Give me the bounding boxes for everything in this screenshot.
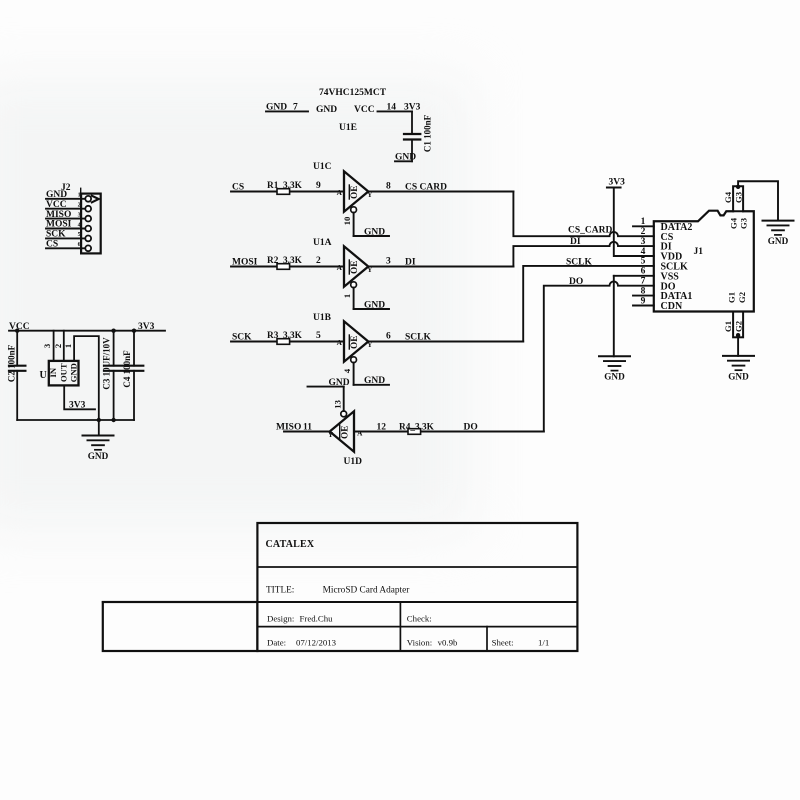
svg-text:OE: OE (349, 261, 359, 274)
svg-text:U1B: U1B (313, 313, 332, 323)
svg-text:CS_CARD: CS_CARD (568, 226, 612, 236)
svg-text:74VHC125MCT: 74VHC125MCT (319, 88, 387, 98)
svg-text:GND: GND (768, 236, 789, 246)
svg-text:VCC: VCC (46, 200, 67, 210)
svg-text:C3 10UF/10V: C3 10UF/10V (102, 337, 112, 390)
svg-text:3V3: 3V3 (609, 177, 626, 187)
svg-text:CS CARD: CS CARD (405, 183, 447, 193)
svg-text:U1A: U1A (313, 238, 332, 248)
svg-text:3: 3 (641, 237, 646, 247)
svg-text:6: 6 (641, 267, 646, 277)
svg-text:A: A (337, 263, 343, 272)
svg-text:5: 5 (641, 257, 646, 267)
svg-text:Sheet:: Sheet: (492, 638, 514, 648)
svg-text:1: 1 (342, 294, 352, 298)
svg-text:5: 5 (316, 331, 321, 341)
svg-text:G4: G4 (728, 217, 738, 229)
svg-text:07/12/2013: 07/12/2013 (296, 638, 337, 648)
svg-text:4: 4 (641, 247, 646, 257)
svg-text:U: U (40, 370, 47, 381)
svg-text:CS: CS (232, 183, 244, 193)
svg-text:MicroSD Card Adapter: MicroSD Card Adapter (323, 586, 411, 596)
svg-text:G2: G2 (737, 292, 747, 303)
svg-text:OUT: OUT (58, 363, 68, 382)
svg-text:G2: G2 (734, 321, 744, 332)
svg-text:U1C: U1C (313, 162, 332, 172)
svg-text:U1E: U1E (339, 123, 357, 133)
svg-text:DI: DI (405, 258, 416, 268)
svg-text:C4 100nF: C4 100nF (122, 350, 132, 388)
svg-text:3V3: 3V3 (138, 322, 155, 332)
svg-text:G4: G4 (723, 191, 733, 203)
svg-text:3: 3 (386, 257, 391, 267)
svg-text:4: 4 (78, 221, 81, 228)
svg-text:Date:: Date: (267, 638, 286, 648)
svg-text:OE: OE (349, 336, 359, 349)
svg-text:13: 13 (332, 400, 342, 409)
svg-text:CS: CS (46, 240, 58, 250)
svg-text:3V3: 3V3 (69, 401, 86, 411)
svg-text:CATALEX: CATALEX (266, 539, 315, 550)
svg-text:SCK: SCK (232, 333, 252, 343)
svg-text:MOSI: MOSI (232, 258, 258, 268)
svg-text:Vision:: Vision: (407, 638, 432, 648)
svg-text:GND: GND (364, 227, 385, 237)
svg-text:1/1: 1/1 (538, 638, 549, 648)
svg-text:6: 6 (386, 332, 391, 342)
svg-text:v0.9b: v0.9b (438, 638, 458, 648)
svg-text:12: 12 (377, 423, 387, 433)
svg-text:OE: OE (340, 426, 350, 439)
svg-text:Y: Y (328, 430, 334, 439)
svg-text:C1 100nF: C1 100nF (423, 114, 433, 152)
svg-text:R2_3.3K: R2_3.3K (267, 256, 303, 266)
svg-text:GND: GND (316, 105, 337, 115)
svg-text:G1: G1 (723, 321, 733, 332)
svg-text:GND: GND (364, 300, 385, 310)
svg-text:CDN: CDN (661, 301, 683, 312)
svg-text:GND: GND (46, 190, 67, 200)
svg-text:GND: GND (69, 363, 79, 382)
svg-text:3: 3 (42, 344, 52, 348)
svg-text:IN: IN (48, 367, 58, 377)
svg-text:U1D: U1D (344, 457, 363, 467)
svg-text:VCC: VCC (354, 105, 375, 115)
svg-text:Check:: Check: (407, 614, 432, 624)
svg-text:2: 2 (316, 256, 321, 266)
svg-text:A: A (337, 188, 343, 197)
svg-text:9: 9 (316, 181, 321, 191)
svg-text:10: 10 (342, 216, 352, 225)
svg-text:R1_3.3K: R1_3.3K (267, 181, 303, 191)
svg-text:C2 100nF: C2 100nF (7, 344, 17, 382)
svg-text:GND: GND (88, 451, 109, 461)
svg-text:GND: GND (329, 378, 350, 388)
svg-text:DO: DO (569, 277, 583, 287)
svg-text:8: 8 (641, 286, 646, 296)
svg-text:DI: DI (570, 237, 581, 247)
svg-text:4: 4 (342, 368, 352, 373)
svg-text:8: 8 (386, 182, 391, 192)
svg-text:3: 3 (78, 211, 81, 218)
svg-text:G3: G3 (734, 192, 744, 203)
svg-text:9: 9 (641, 296, 646, 306)
svg-text:14: 14 (387, 103, 397, 113)
svg-text:2: 2 (78, 202, 81, 209)
svg-text:DO: DO (464, 423, 478, 433)
svg-text:2: 2 (641, 227, 646, 237)
svg-text:Design:: Design: (267, 614, 294, 624)
svg-text:GND: GND (604, 372, 625, 382)
svg-text:Fred.Chu: Fred.Chu (300, 614, 334, 624)
svg-text:SCLK: SCLK (566, 257, 592, 267)
svg-text:6: 6 (78, 241, 81, 248)
svg-text:7: 7 (641, 277, 646, 287)
svg-text:GND: GND (728, 371, 749, 381)
svg-text:A: A (357, 429, 363, 438)
svg-text:A: A (337, 338, 343, 347)
svg-text:MISO: MISO (46, 210, 71, 220)
svg-text:G3: G3 (739, 218, 749, 229)
svg-text:R4_3.3K: R4_3.3K (399, 423, 435, 433)
svg-text:1: 1 (78, 192, 81, 199)
svg-text:OE: OE (349, 186, 359, 199)
svg-text:GND: GND (364, 376, 385, 386)
svg-text:SCK: SCK (46, 230, 66, 240)
svg-text:5: 5 (78, 231, 81, 238)
svg-text:MOSI: MOSI (46, 220, 72, 230)
svg-text:1: 1 (641, 217, 646, 227)
svg-text:G1: G1 (727, 292, 737, 303)
svg-text:7: 7 (293, 103, 298, 113)
svg-text:R3_3.3K: R3_3.3K (267, 331, 303, 341)
svg-text:2: 2 (53, 344, 63, 348)
svg-text:TITLE:: TITLE: (266, 586, 294, 596)
svg-text:SCLK: SCLK (405, 333, 431, 343)
svg-text:J1: J1 (694, 247, 704, 257)
